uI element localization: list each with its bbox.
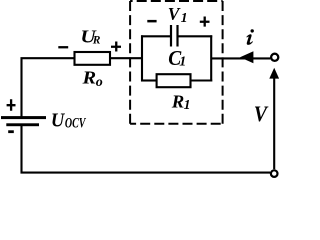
battery short plate <box>6 123 39 126</box>
terminal top <box>271 54 278 61</box>
wire top left <box>22 58 75 117</box>
svg-text:1: 1 <box>181 11 188 26</box>
plus sign right of Ro <box>111 42 121 52</box>
battery voltage source UOCV long plate <box>1 116 46 119</box>
voltage arrow V <box>273 78 275 170</box>
svg-text:1: 1 <box>179 55 186 70</box>
battery plus sign <box>7 99 16 110</box>
dashed box RC network <box>130 1 223 124</box>
svg-text:o: o <box>96 75 103 90</box>
wire left lower <box>22 126 271 173</box>
wire bottom branch right <box>191 79 213 81</box>
svg-text:R: R <box>92 35 101 47</box>
RC network right vertical wire <box>210 35 212 81</box>
wire top branch left <box>141 35 170 37</box>
resistor Ro <box>75 52 111 65</box>
current arrowhead i <box>240 51 253 63</box>
minus sign left of V1 <box>147 20 156 23</box>
wire top branch right <box>179 35 213 37</box>
svg-text:R: R <box>171 92 184 112</box>
svg-text:R: R <box>81 69 96 89</box>
terminal bottom <box>271 170 278 177</box>
svg-text:U: U <box>51 110 66 132</box>
wire Ro to network <box>110 57 143 59</box>
svg-text:1: 1 <box>184 97 191 112</box>
plus sign right of V1 <box>200 17 210 27</box>
capacitor C1 <box>171 25 178 47</box>
wire network to terminal <box>211 57 270 59</box>
svg-text:V: V <box>254 101 269 126</box>
battery minus sign <box>8 130 14 133</box>
resistor R1 <box>157 74 191 87</box>
wire bottom branch left <box>141 79 157 81</box>
RC network left vertical wire <box>141 35 143 81</box>
svg-text:V: V <box>168 4 182 24</box>
minus sign left of Ro <box>58 46 68 48</box>
label i <box>251 29 254 32</box>
svg-text:OCV: OCV <box>65 116 87 132</box>
